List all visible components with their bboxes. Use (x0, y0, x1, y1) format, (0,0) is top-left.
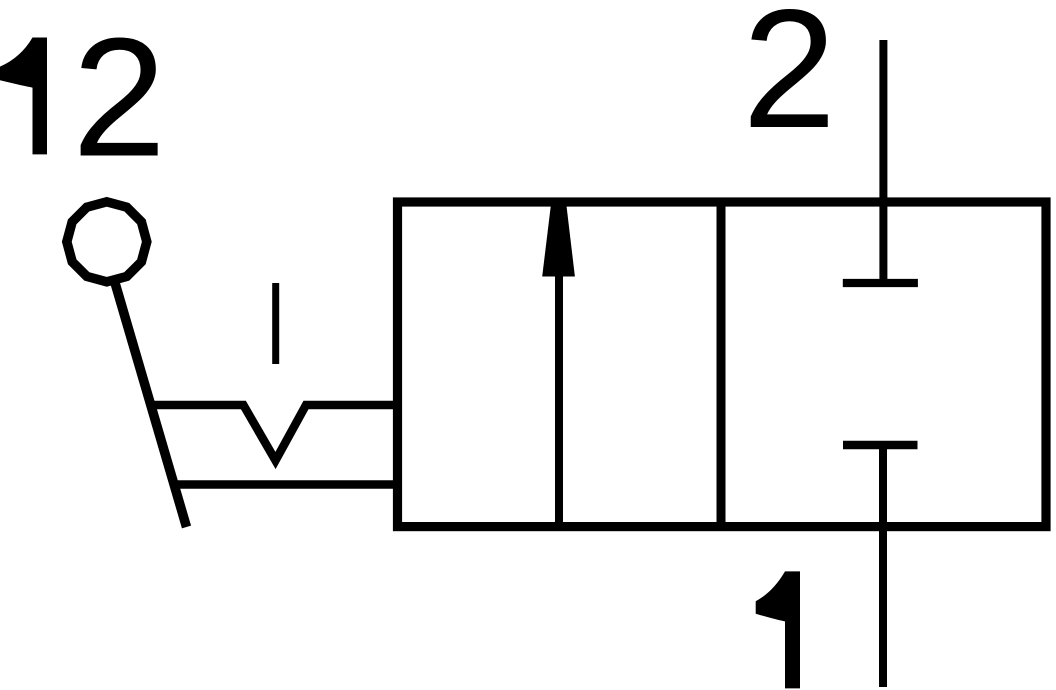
flow arrow shaft (555, 272, 563, 527)
port 2 line (879, 40, 887, 285)
detent tick mark (272, 283, 279, 364)
svg-text:2: 2 (742, 0, 836, 163)
lever arm (115, 284, 186, 528)
flow arrow head (542, 200, 575, 277)
label 1 (port 1) (756, 571, 800, 688)
port 1 line (879, 442, 887, 687)
label 12 (pilot port): digit 1 (0, 38, 47, 155)
lever knob circle (67, 202, 147, 282)
detent notch line (top, with V) (150, 405, 398, 461)
port 2 blocked crossbar (843, 279, 918, 287)
detent line (bottom) (173, 480, 398, 489)
svg-text:2: 2 (72, 3, 166, 192)
valve body outline (398, 202, 1047, 527)
port 1 blocked crossbar (843, 441, 918, 449)
valve body divider (717, 202, 726, 527)
